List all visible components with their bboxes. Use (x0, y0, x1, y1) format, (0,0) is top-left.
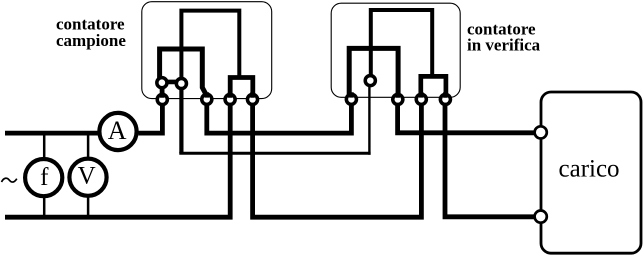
U2 voltage terminal (365, 76, 375, 86)
U2 current coil (349, 48, 398, 99)
wire: U2 terminal 4 down, bottom bus right to load (445, 99, 535, 217)
ammeter A (99, 113, 136, 150)
U1 terminal 4 (247, 94, 257, 104)
U2 voltage coil loop (371, 10, 432, 81)
wire: frequency meter tap bottom (43, 198, 46, 216)
wire: voltage line U1 to U2 (179, 152, 370, 155)
load terminal top (535, 126, 547, 138)
U1 link terminal left (157, 78, 167, 88)
U1 neutral jumper (230, 78, 253, 100)
wire: ammeter to U1 terminal 1 (139, 99, 163, 133)
U1 terminal 1 to link vertical (160, 83, 165, 100)
wire: top bus left (source to ammeter) (5, 131, 98, 136)
wire: bottom bus left, up to U1 terminal 4 (5, 99, 230, 217)
wire: U1 terminal 5 down, bottom bus middle, up to U2 terminal 3 (253, 99, 422, 217)
frequency meter f (25, 159, 62, 196)
load box (carico) outline (541, 92, 641, 253)
wire: U1 terminal 3 down, top bus middle, up to U2 terminal 1 (207, 99, 352, 133)
terminal top stubs (wire-over-hole shading) (162, 92, 445, 98)
U1 terminal 3 (225, 94, 235, 104)
meter box U1 (contatore campione) outline (142, 2, 272, 99)
U1 link terminal right (176, 78, 186, 88)
wire: voltage tap from U1 link down (179, 84, 183, 154)
wire: voltmeter tap top (87, 134, 90, 157)
U1 terminal 2 (202, 94, 212, 104)
svg-text:A: A (108, 116, 127, 145)
AC source tilde (2, 178, 17, 182)
svg-text:campione: campione (56, 31, 126, 50)
U1 voltage link bar (162, 80, 182, 85)
svg-text:V: V (78, 163, 96, 190)
load terminal bottom (535, 211, 547, 223)
U1 terminal 1 (157, 94, 167, 104)
U2 terminal 4 (440, 94, 450, 104)
U1 current coil (160, 49, 207, 99)
svg-text:carico: carico (559, 156, 620, 183)
U2 terminal 1 (346, 94, 356, 104)
meter box U2 (contatore in verifica) outline (331, 3, 460, 97)
U2 terminal 2 (393, 94, 403, 104)
U2 neutral jumper (421, 76, 446, 99)
svg-text:in verifica: in verifica (467, 35, 541, 54)
voltmeter V (69, 159, 106, 196)
wire: voltmeter tap bottom (87, 198, 90, 216)
wire: frequency meter tap top (43, 134, 46, 158)
U1 voltage coil loop (181, 11, 239, 84)
wire: voltage line up into U2 (368, 83, 370, 155)
svg-text:f: f (40, 164, 49, 191)
U2 terminal 3 (416, 94, 426, 104)
wire: U2 terminal 2 down, top bus right to load (398, 99, 535, 133)
